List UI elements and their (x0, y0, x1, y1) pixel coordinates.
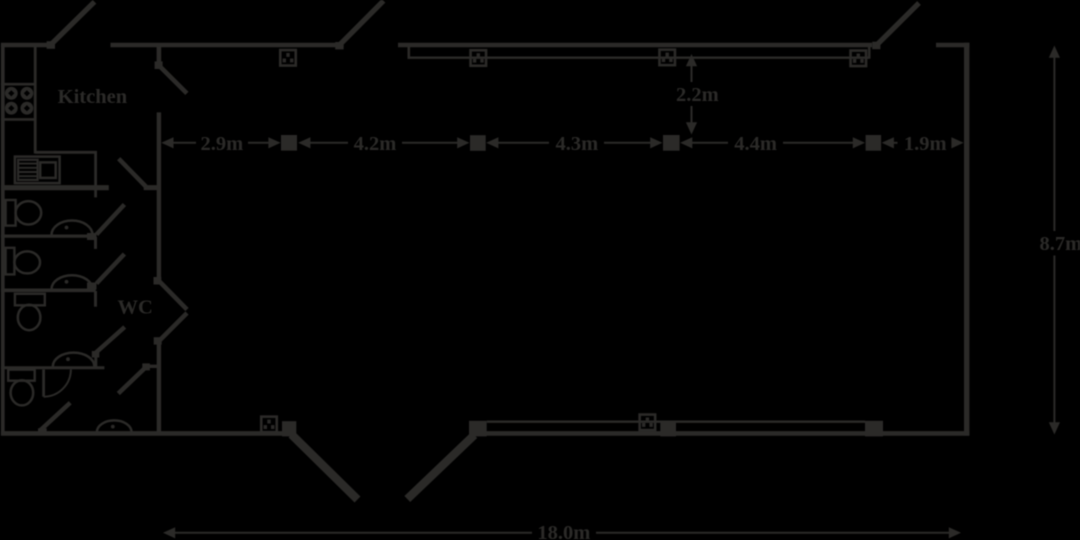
svg-text:8.7m: 8.7m (1040, 233, 1080, 255)
hinge WC entry lower (154, 337, 162, 344)
socket bottom wall (261, 417, 277, 433)
stub below partition 1 (94, 237, 97, 249)
column 2 (470, 135, 486, 151)
stove bottom line (1, 118, 35, 121)
hinge cubicle 2 (87, 283, 97, 290)
socket bottom sill (640, 415, 656, 431)
dim 4.3m line right (604, 142, 651, 144)
wall WC right upper (157, 112, 161, 280)
window bottom sill (487, 421, 865, 423)
kitchen south door leaf (119, 159, 146, 187)
burner 4 (21, 102, 34, 115)
svg-text:4.2m: 4.2m (354, 133, 397, 155)
hinge WC entry upper (154, 277, 162, 285)
burner 2 (21, 87, 34, 100)
leaf WC entry upper (160, 282, 188, 310)
sink unit outer (15, 157, 60, 184)
dim 8.7m line top (1053, 57, 1055, 231)
svg-text:2.2m: 2.2m (676, 84, 719, 106)
hinge WC bottom door (38, 428, 47, 433)
dim 4.4m line left (691, 142, 728, 144)
dim 4.3m line left (498, 142, 550, 144)
drainer line 2 (19, 167, 37, 169)
toilet 3 bowl (18, 305, 41, 330)
dim 18.0m line right (596, 532, 950, 534)
dim 4.4m left arrow (680, 137, 692, 148)
dim 2.2m line bottom (691, 106, 693, 123)
dim 8.7m line bottom (1053, 256, 1055, 424)
dim 4.3m left arrow (486, 137, 498, 148)
window post B2 (469, 421, 487, 437)
leaf cubicle 1 (97, 205, 125, 235)
counter edge vertical (34, 45, 37, 154)
dim 2.9m left arrow (161, 137, 173, 148)
dim 18.0m left arrow (163, 527, 175, 538)
sink bowl (40, 162, 56, 178)
dim 4.4m line right (783, 142, 854, 144)
window top right jamb (868, 44, 871, 58)
wall bottom segment A (1, 431, 290, 436)
dim 2.2m line top (691, 66, 693, 83)
wall kitchen door stub (157, 43, 162, 64)
burner 3 (5, 102, 18, 115)
hinge top-right door (872, 42, 880, 50)
svg-text:2.9m: 2.9m (201, 133, 244, 155)
wall top segment C (window run) (398, 43, 872, 48)
wall top segment D (936, 43, 969, 48)
basin 1 (52, 220, 93, 235)
wall left outer (1, 43, 5, 436)
dim 2.2m bottom arrow (686, 122, 697, 134)
dim 1.9m line right (952, 142, 954, 144)
svg-text:18.0m: 18.0m (537, 522, 590, 540)
dim 4.2m left arrow (298, 137, 310, 148)
toilet 2 tank (6, 248, 15, 275)
basin 1 tap dot (65, 226, 69, 230)
hinge cubicle 1 (87, 233, 97, 240)
svg-text:WC: WC (117, 297, 152, 319)
leaf top-left door (52, 2, 95, 44)
hinge cubicle 3 (92, 351, 100, 358)
leaf top door 2 (340, 1, 384, 45)
wall stub WC internal door (147, 365, 161, 368)
toilet 4 bowl (11, 380, 34, 405)
dim 4.4m right arrow (853, 137, 865, 148)
stove top line (1, 83, 35, 86)
svg-text:1.9m: 1.9m (904, 133, 947, 155)
leaf top-right door (877, 3, 919, 45)
basin 2 (52, 275, 93, 289)
column 3 (663, 135, 680, 151)
partition 3 (1, 366, 105, 369)
hinge kitchen door (155, 61, 163, 69)
svg-text:Kitchen: Kitchen (58, 86, 128, 108)
counter right vertical (94, 152, 97, 197)
toilet 1 bowl (16, 201, 42, 224)
dim 2.9m right arrow (268, 137, 280, 148)
window top sill (410, 57, 869, 59)
socket top sill 3 (851, 51, 867, 67)
hinge top door 2 (335, 42, 343, 49)
drainer line 3 (19, 171, 37, 173)
toilet 1 tank (6, 200, 16, 226)
leaf WC internal door (118, 368, 145, 394)
dim 4.2m line left (310, 142, 349, 144)
entrance post left (282, 421, 296, 436)
hinge top-left door (47, 41, 55, 49)
dim 1.9m right arrow (951, 137, 963, 148)
window post B3 (660, 421, 676, 437)
basin 3 tap dot (66, 357, 70, 361)
toilet 3 tank (15, 294, 45, 306)
dim 4.2m right arrow (457, 137, 469, 148)
stub below partition 2 (94, 291, 97, 307)
basin 4 tap dot (111, 425, 115, 429)
entrance leaf left (292, 435, 358, 500)
dim 2.9m line left (173, 142, 197, 144)
socket top sill 1 (471, 50, 487, 66)
column 1 (281, 135, 297, 151)
dim 2.2m top arrow (686, 54, 697, 66)
column 4 (866, 135, 882, 151)
dim 4.3m right arrow (650, 137, 662, 148)
wall top segment B (111, 43, 344, 48)
basin 3 (53, 353, 95, 367)
wall kitchen divider (1, 185, 109, 190)
dim 8.7m top arrow (1049, 46, 1060, 58)
dim 18.0m line left (175, 532, 533, 534)
dim 1.9m left arrow (882, 137, 894, 148)
leaf kitchen door (159, 66, 187, 94)
wall kitchen south stub (144, 185, 161, 190)
wall WC right lower (157, 342, 161, 435)
stub above partition 3 (94, 354, 97, 368)
wall right outer (964, 43, 969, 436)
toilet 4 tank (8, 370, 35, 381)
leaf WC bottom door (40, 403, 71, 431)
dim 18.0m right arrow (949, 527, 961, 538)
svg-text:4.3m: 4.3m (556, 133, 599, 155)
dim 1.9m line left (893, 142, 898, 144)
partition 2 (1, 288, 96, 292)
basin 4 (97, 420, 132, 432)
leaf cubicle 2 (97, 254, 125, 284)
arc cubicle 4 swing (44, 369, 71, 396)
wall bottom segment B (469, 431, 969, 436)
leaf cubicle 4 closed (42, 369, 45, 396)
drainer line 4 (19, 175, 37, 177)
burner 1 (5, 87, 18, 100)
socket top wall (280, 50, 296, 66)
window top left jamb (407, 45, 410, 59)
partition 1 (1, 234, 96, 237)
dim 8.7m bottom arrow (1049, 422, 1060, 434)
sink drainer (18, 160, 37, 180)
drainer line 1 (19, 163, 37, 165)
window post B4 (865, 421, 883, 437)
svg-text:4.4m: 4.4m (734, 133, 777, 155)
counter return horizontal (35, 151, 97, 154)
entrance leaf right (407, 435, 474, 499)
wall top segment A (1, 43, 51, 48)
socket top sill 2 (659, 50, 675, 66)
basin 2 tap dot (65, 280, 69, 284)
dim 2.9m line right (248, 142, 270, 144)
leaf cubicle 3 (96, 327, 125, 353)
hinge WC internal door (142, 363, 150, 370)
dim 4.2m line right (402, 142, 458, 144)
leaf WC entry lower (160, 313, 188, 341)
toilet 2 bowl (14, 251, 40, 273)
